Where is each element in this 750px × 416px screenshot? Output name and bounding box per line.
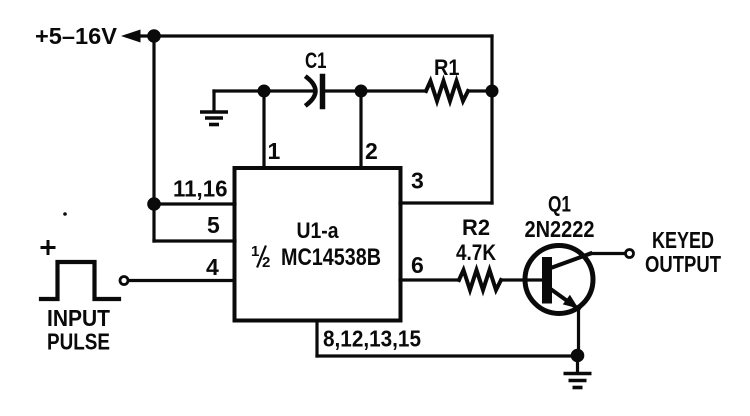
wire bottom rail [317, 354, 578, 357]
pin label 8,12,13,15 [323, 326, 421, 352]
junction at pins 11,16 [147, 197, 161, 211]
svg-text:Q1: Q1 [548, 192, 571, 217]
wire pin 2 vertical [359, 91, 362, 168]
label U1-a [297, 218, 340, 243]
svg-text:R2: R2 [462, 215, 490, 240]
input pulse waveform [41, 262, 119, 299]
pin label 4 [206, 254, 219, 280]
input pulse + polarity [42, 242, 54, 254]
svg-text:3: 3 [411, 168, 424, 194]
svg-text:1: 1 [268, 138, 281, 164]
pin label 3 [411, 168, 424, 194]
wire to R1 [361, 89, 426, 92]
wire pin 5 [154, 239, 235, 242]
label R2 [462, 215, 490, 240]
label C1 [305, 48, 327, 73]
wire top rail [154, 34, 492, 37]
svg-text:2: 2 [365, 138, 378, 164]
wire pin 4 [129, 279, 235, 282]
svg-text:2N2222: 2N2222 [525, 216, 595, 242]
svg-text:INPUT: INPUT [47, 305, 110, 331]
wire pin 3 [400, 201, 492, 204]
svg-text:4.7K: 4.7K [456, 240, 496, 265]
svg-text:2: 2 [262, 254, 270, 271]
pin label 5 [207, 212, 220, 238]
ground G1 [202, 91, 226, 125]
resistor R1 [426, 81, 468, 101]
junction R1 node [486, 85, 499, 98]
svg-text:PULSE: PULSE [47, 329, 110, 355]
junction emitter ground node [571, 349, 585, 363]
label OUTPUT [645, 251, 721, 277]
svg-text:8,12,13,15: 8,12,13,15 [323, 326, 421, 352]
junction pin 1 node [258, 85, 271, 98]
pin label 6 [411, 252, 424, 278]
wire pin 11,16 [154, 202, 235, 205]
label INPUT [47, 305, 110, 331]
svg-text:MC14538B: MC14538B [281, 244, 381, 271]
svg-text:5: 5 [207, 212, 220, 238]
svg-text:C1: C1 [305, 48, 327, 73]
svg-text:4: 4 [206, 254, 219, 280]
label 2N2222 [525, 216, 595, 242]
svg-text:R1: R1 [434, 55, 460, 80]
ground G2 [565, 356, 589, 388]
svg-text:U1-a: U1-a [297, 218, 340, 243]
svg-text:1: 1 [251, 243, 259, 260]
pin label 11,16 [173, 176, 228, 202]
wire R2 to base [501, 278, 542, 281]
svg-text:11,16: 11,16 [173, 176, 228, 202]
wire C1 right lead [325, 89, 361, 92]
label Q1 [548, 192, 571, 217]
label KEYED [652, 227, 714, 253]
junction supply node [147, 29, 161, 43]
wire C1 left lead [264, 89, 313, 92]
wire right vertical from rail to pin 3 [490, 36, 493, 203]
supply arrow [121, 30, 152, 43]
svg-text:+5–16V: +5–16V [35, 23, 118, 49]
svg-text:OUTPUT: OUTPUT [645, 251, 721, 277]
wire emitter vertical [577, 309, 580, 356]
IC U1-a body [235, 168, 401, 321]
wire left vertical from supply to pin 5 [152, 36, 155, 241]
wire pin 1 vertical [262, 91, 265, 168]
input terminal circle [120, 277, 128, 285]
output terminal circle [626, 250, 634, 258]
pin label 1 [268, 138, 281, 164]
junction pin 2 node [355, 85, 368, 98]
label MC14538B [281, 244, 381, 271]
label 4.7K [456, 240, 496, 265]
wire collector to output [591, 252, 626, 255]
resistor R2 [459, 270, 501, 290]
capacitor C1 [307, 77, 323, 107]
svg-text:6: 6 [411, 252, 424, 278]
label R1 [434, 55, 460, 80]
label PULSE [47, 329, 110, 355]
wire R1 to node [468, 89, 492, 92]
transistor Q1 [525, 246, 593, 314]
label 1/2 fraction [251, 243, 270, 271]
pin label 2 [365, 138, 378, 164]
wire pin 6 [400, 278, 459, 281]
wire pin 8,12,13,15 vertical [315, 321, 318, 357]
node +5-16V supply label [35, 23, 118, 49]
svg-text:KEYED: KEYED [652, 227, 714, 253]
speck artifact [63, 212, 67, 216]
wire ground to C1 node [214, 89, 264, 92]
